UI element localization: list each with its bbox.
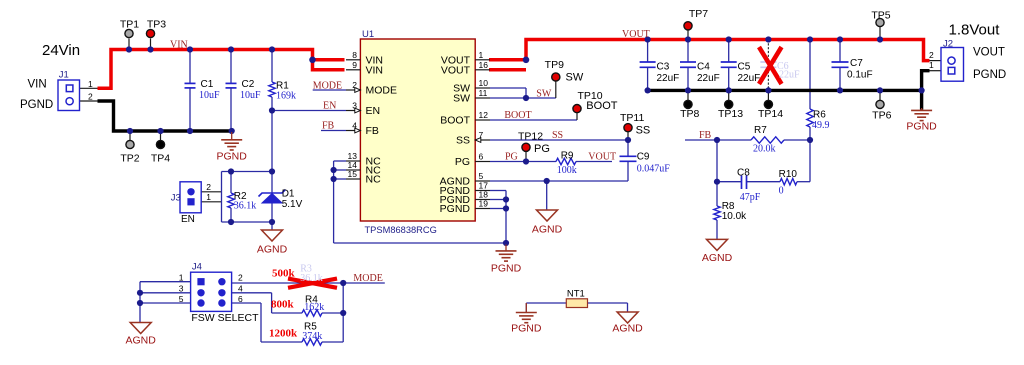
svg-text:5.1V: 5.1V <box>282 199 303 210</box>
svg-text:MODE: MODE <box>353 273 382 284</box>
svg-text:C7: C7 <box>850 58 863 69</box>
svg-text:D1: D1 <box>282 189 295 200</box>
svg-text:PGND: PGND <box>511 323 542 335</box>
svg-text:100k: 100k <box>557 165 577 176</box>
svg-text:NT1: NT1 <box>567 289 585 300</box>
svg-text:SW: SW <box>453 93 470 105</box>
svg-text:162k: 162k <box>304 302 324 313</box>
svg-text:NC: NC <box>366 174 382 186</box>
svg-text:MODE: MODE <box>366 85 398 97</box>
svg-text:PGND: PGND <box>217 151 248 163</box>
svg-text:10uF: 10uF <box>199 90 220 101</box>
svg-text:J2: J2 <box>943 39 953 50</box>
svg-text:C8: C8 <box>737 168 750 179</box>
svg-text:BOOT: BOOT <box>440 115 470 127</box>
svg-text:1: 1 <box>206 192 211 202</box>
svg-text:1.8Vout: 1.8Vout <box>949 22 1001 39</box>
svg-text:22uF: 22uF <box>738 73 761 84</box>
svg-text:EN: EN <box>366 105 381 117</box>
svg-text:TP2: TP2 <box>120 153 139 165</box>
svg-text:49.9: 49.9 <box>812 120 830 131</box>
svg-text:19: 19 <box>479 199 489 209</box>
svg-text:R9: R9 <box>561 151 574 162</box>
svg-text:C4: C4 <box>697 62 710 73</box>
svg-text:4: 4 <box>238 284 243 294</box>
svg-text:VOUT: VOUT <box>441 65 471 77</box>
svg-text:MODE: MODE <box>313 80 342 91</box>
svg-text:5: 5 <box>179 294 184 304</box>
svg-text:3: 3 <box>179 284 184 294</box>
svg-text:C9: C9 <box>637 152 650 163</box>
svg-text:SS: SS <box>552 130 563 141</box>
svg-text:1: 1 <box>88 79 93 89</box>
svg-text:SW: SW <box>566 72 584 84</box>
svg-text:15: 15 <box>348 169 358 179</box>
svg-text:TP4: TP4 <box>151 153 170 165</box>
svg-text:36.1k: 36.1k <box>300 273 323 284</box>
svg-text:R10: R10 <box>779 169 798 180</box>
svg-text:VOUT: VOUT <box>973 47 1005 59</box>
svg-text:PGND: PGND <box>440 203 471 215</box>
svg-text:FB: FB <box>366 125 379 137</box>
svg-text:10uF: 10uF <box>240 90 261 101</box>
svg-text:10.0k: 10.0k <box>722 211 747 222</box>
svg-text:AGND: AGND <box>532 224 563 236</box>
svg-text:R6: R6 <box>813 110 826 121</box>
svg-text:TP6: TP6 <box>872 110 891 122</box>
svg-text:VOUT: VOUT <box>622 29 650 40</box>
svg-text:EN: EN <box>323 100 336 111</box>
svg-text:SS: SS <box>636 124 651 136</box>
svg-text:PGND: PGND <box>20 99 53 111</box>
svg-text:1: 1 <box>179 273 184 283</box>
svg-text:FSW SELECT: FSW SELECT <box>191 312 259 324</box>
svg-text:TP7: TP7 <box>689 8 708 20</box>
svg-text:374k: 374k <box>302 331 322 342</box>
svg-text:PGND: PGND <box>973 69 1006 81</box>
svg-text:1: 1 <box>479 50 484 60</box>
svg-text:6: 6 <box>238 294 243 304</box>
svg-text:AGND: AGND <box>612 323 643 335</box>
svg-text:EN: EN <box>181 214 195 225</box>
svg-text:TP12: TP12 <box>518 130 543 142</box>
svg-text:FB: FB <box>699 130 712 141</box>
svg-text:22uF: 22uF <box>657 73 680 84</box>
svg-text:C2: C2 <box>242 79 255 90</box>
svg-text:500k: 500k <box>272 267 296 279</box>
svg-text:BOOT: BOOT <box>586 100 617 112</box>
svg-text:TP9: TP9 <box>545 59 564 71</box>
svg-text:PGND: PGND <box>491 263 522 275</box>
svg-text:0.047uF: 0.047uF <box>637 164 671 175</box>
svg-text:11: 11 <box>479 88 488 98</box>
svg-text:2: 2 <box>206 182 211 192</box>
svg-text:AGND: AGND <box>702 252 733 264</box>
svg-text:2: 2 <box>929 50 934 60</box>
svg-text:SS: SS <box>456 135 470 147</box>
svg-text:PG: PG <box>455 156 470 168</box>
svg-text:47pF: 47pF <box>740 192 761 203</box>
svg-text:J1: J1 <box>59 69 69 80</box>
svg-text:VIN: VIN <box>366 65 384 77</box>
svg-text:AGND: AGND <box>126 334 157 346</box>
svg-text:12: 12 <box>479 110 489 120</box>
svg-text:22uF: 22uF <box>779 70 800 81</box>
svg-text:TP11: TP11 <box>620 112 644 124</box>
svg-text:8: 8 <box>352 50 357 60</box>
svg-text:VIN: VIN <box>170 39 188 50</box>
svg-text:VIN: VIN <box>28 79 47 91</box>
svg-text:24Vin: 24Vin <box>42 42 80 59</box>
svg-text:36.1k: 36.1k <box>234 201 256 212</box>
svg-text:C5: C5 <box>738 62 751 73</box>
svg-text:C1: C1 <box>201 79 214 90</box>
svg-text:PG: PG <box>534 143 550 155</box>
svg-text:800k: 800k <box>271 299 295 311</box>
svg-text:1200k: 1200k <box>269 328 298 340</box>
svg-text:TP5: TP5 <box>871 10 890 22</box>
svg-text:20.0k: 20.0k <box>753 144 776 155</box>
svg-text:9: 9 <box>352 60 357 70</box>
svg-text:J3: J3 <box>171 193 181 204</box>
svg-text:U1: U1 <box>362 29 374 40</box>
svg-text:PG: PG <box>505 151 518 162</box>
svg-text:TP3: TP3 <box>147 19 166 31</box>
svg-text:BOOT: BOOT <box>504 110 531 121</box>
svg-text:TP1: TP1 <box>120 19 139 31</box>
svg-text:C3: C3 <box>657 62 670 73</box>
svg-text:5: 5 <box>479 171 484 181</box>
svg-text:R7: R7 <box>754 125 767 136</box>
svg-text:6: 6 <box>479 152 484 162</box>
svg-text:16: 16 <box>479 60 489 70</box>
svg-text:169k: 169k <box>276 91 296 102</box>
svg-text:TPSM86838RCG: TPSM86838RCG <box>365 225 437 235</box>
svg-text:VOUT: VOUT <box>588 151 616 162</box>
svg-text:0: 0 <box>779 186 784 197</box>
svg-text:AGND: AGND <box>257 244 288 256</box>
svg-text:2: 2 <box>238 273 243 283</box>
svg-text:J4: J4 <box>192 262 202 273</box>
svg-text:TP14: TP14 <box>758 108 783 120</box>
svg-text:TP13: TP13 <box>718 108 743 120</box>
svg-text:1: 1 <box>929 60 934 70</box>
svg-text:22uF: 22uF <box>697 73 720 84</box>
svg-text:FB: FB <box>322 120 335 131</box>
svg-text:0.1uF: 0.1uF <box>847 70 873 81</box>
svg-text:SW: SW <box>536 88 552 99</box>
svg-text:TP8: TP8 <box>680 108 699 120</box>
svg-text:2: 2 <box>88 92 93 102</box>
svg-text:PGND: PGND <box>906 121 937 133</box>
svg-text:10: 10 <box>479 78 489 88</box>
